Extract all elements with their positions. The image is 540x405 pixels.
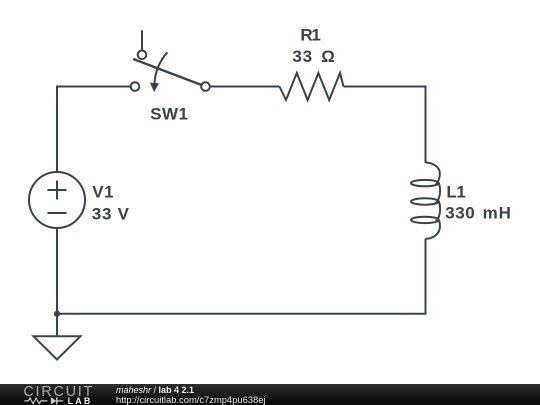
schematic url <box>116 394 266 405</box>
logo resistor zigzag <box>24 398 47 404</box>
footer black bar <box>0 384 540 405</box>
svg-text:33 V: 33 V <box>92 204 130 223</box>
svg-text:mH: mH <box>483 204 512 223</box>
resistor R1 <box>280 73 344 100</box>
svg-text:SW1: SW1 <box>150 105 188 124</box>
logo word LAB <box>68 396 93 405</box>
ground symbol <box>34 336 81 359</box>
svg-text:L1: L1 <box>446 183 465 202</box>
switch SW1 arrow head <box>150 83 159 93</box>
logo diode <box>51 397 57 404</box>
svg-text:330: 330 <box>445 204 475 223</box>
svg-text:33: 33 <box>292 47 313 66</box>
V1 minus sign <box>48 212 67 214</box>
wire resistor to top-right corner down to inductor <box>344 87 426 164</box>
wire switch to resistor <box>211 86 280 88</box>
voltage source V1 circle <box>29 172 85 228</box>
CircuitLab logo word CIRCUIT <box>23 384 94 400</box>
svg-text:V1: V1 <box>92 183 113 202</box>
switch SW1 right terminal circle <box>201 82 210 91</box>
svg-text:R1: R1 <box>300 25 321 44</box>
wire V1 bottom to ground <box>56 228 58 336</box>
wire left rail top: from V1 top up and right to switch <box>57 87 130 173</box>
switch SW1 top terminal circle <box>138 51 147 60</box>
wire inductor to bottom-right corner and bottom rail to junction <box>57 239 426 314</box>
switch SW1 actuation arrow arc <box>155 52 168 83</box>
svg-text:Ω: Ω <box>321 47 335 66</box>
V1 plus sign <box>48 181 67 200</box>
schematic title <box>116 385 194 395</box>
inductor L1 coil <box>411 162 440 238</box>
switch SW1 top stub <box>141 30 143 49</box>
junction node dot <box>54 311 60 317</box>
switch SW1 left terminal circle <box>131 82 140 91</box>
switch SW1 blade <box>133 59 201 85</box>
